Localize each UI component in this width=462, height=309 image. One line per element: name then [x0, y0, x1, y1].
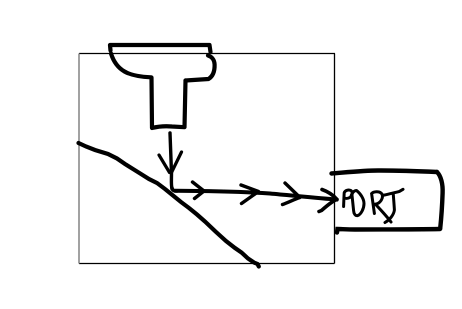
arrowhead into port box — [319, 190, 337, 212]
container rectangle right edge — [334, 54, 336, 264]
port box right edge — [437, 172, 443, 229]
hopper stem — [152, 78, 186, 129]
container rectangle top edge — [79, 53, 335, 55]
down arrow shaft — [170, 133, 172, 189]
slope curve — [79, 143, 259, 267]
hopper right shelf and hook — [186, 56, 215, 81]
label letter P — [344, 190, 353, 206]
container rectangle bottom edge — [79, 263, 335, 265]
hopper left bowl curve — [111, 54, 151, 78]
label letter R — [372, 192, 391, 222]
down arrow head left barb — [159, 155, 170, 173]
chevron 3 — [283, 183, 301, 205]
container rectangle left edge (gray noisy line) — [78, 54, 80, 264]
hopper top bar — [110, 45, 211, 52]
chevron 1 — [193, 182, 205, 199]
port box bottom edge — [337, 229, 440, 233]
flow line corner — [172, 188, 177, 191]
flow line to port box — [175, 191, 337, 200]
chevron 2 — [241, 185, 259, 204]
label letter J — [383, 189, 403, 222]
down arrow head right barb — [172, 152, 182, 173]
port box top edge — [332, 171, 438, 174]
label letter D — [351, 191, 364, 216]
